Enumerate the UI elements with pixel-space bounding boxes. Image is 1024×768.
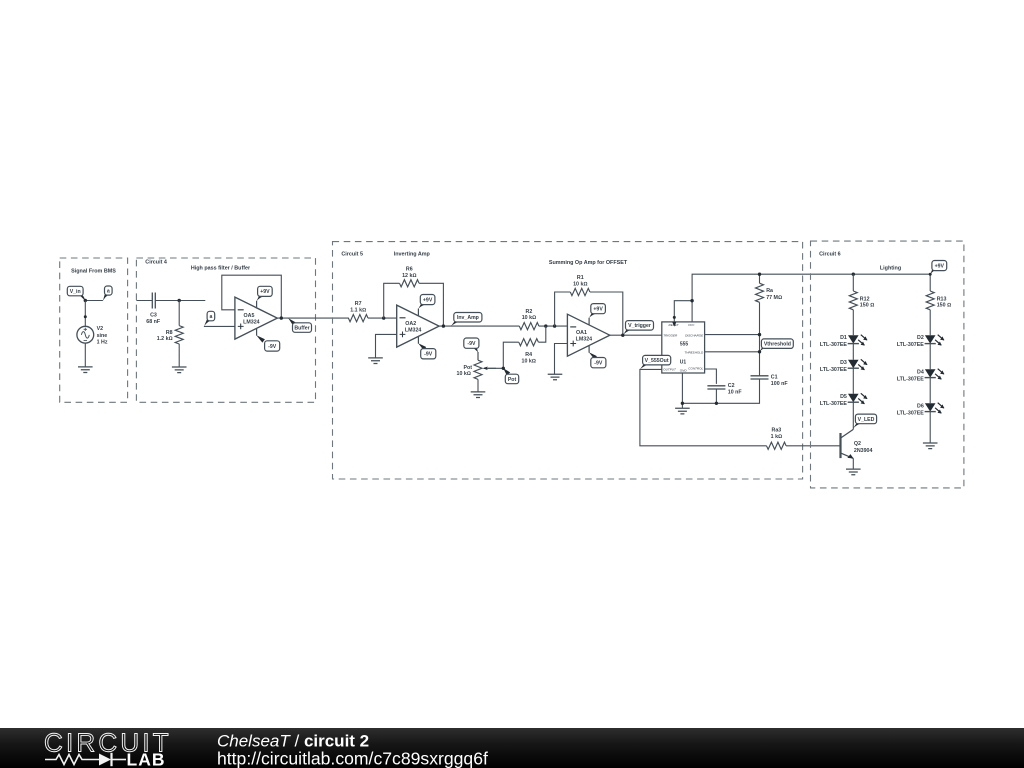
svg-text:10 kΩ: 10 kΩ <box>522 358 536 364</box>
svg-text:+9V: +9V <box>935 263 945 269</box>
junction R4 branch <box>544 324 547 327</box>
svg-text:1 Hz: 1 Hz <box>97 340 108 346</box>
ground under D6 chain <box>923 443 938 449</box>
power flag -9V for OA5 <box>256 329 258 336</box>
svg-text:-9V: -9V <box>424 352 433 358</box>
wire D2 to D4 <box>929 344 931 370</box>
ground under R8 <box>172 367 187 373</box>
junction at R8 top <box>178 299 181 302</box>
voltage source V2 sine 1 Hz <box>77 326 94 343</box>
svg-text:D5: D5 <box>840 394 847 400</box>
junction on OA5 output <box>280 316 283 319</box>
svg-text:Pot: Pot <box>463 365 472 371</box>
svg-text:Q2: Q2 <box>854 441 861 447</box>
pot wiper arrow <box>487 367 497 369</box>
wire D3 to D5 <box>852 368 854 394</box>
flag V_trigger <box>623 329 631 336</box>
ground under V2 <box>78 367 93 373</box>
svg-text:D4: D4 <box>917 369 924 375</box>
flag a (node a, box 1) <box>103 294 108 300</box>
op-amp OA2 LM324 <box>397 305 439 347</box>
svg-text:R1: R1 <box>577 275 584 281</box>
svg-text:LM324: LM324 <box>576 337 593 343</box>
svg-text:Lighting: Lighting <box>880 266 901 272</box>
wire C3 to node <box>155 300 205 302</box>
svg-text:10 kΩ: 10 kΩ <box>573 282 587 288</box>
CircuitLab logo diode <box>99 754 111 766</box>
svg-text:R4: R4 <box>525 352 532 358</box>
svg-text:a: a <box>209 314 212 320</box>
svg-text:V2: V2 <box>97 326 104 332</box>
svg-text:LTL-307EE: LTL-307EE <box>820 367 847 373</box>
LED D4 LTL-307EE <box>925 369 936 377</box>
junction R1 feedback branch <box>553 324 556 327</box>
svg-text:Buffer: Buffer <box>294 325 309 331</box>
svg-text:R12: R12 <box>860 296 870 302</box>
svg-text:D6: D6 <box>917 403 924 409</box>
wire node down to R8 <box>178 301 180 326</box>
resistor R7 <box>348 315 368 322</box>
ground at OA2 + input <box>368 358 383 364</box>
junction at Pot flag node <box>502 367 505 370</box>
wire R12 to D1 <box>852 310 854 335</box>
wire OUTPUT pin to V_555Out and down <box>640 369 767 445</box>
svg-text:LTL-307EE: LTL-307EE <box>897 376 924 382</box>
wire R13 to D2 <box>929 310 931 335</box>
svg-text:Pot: Pot <box>508 377 517 383</box>
wire OA1 output to 555 TRIGGER <box>610 334 662 336</box>
svg-text:C3: C3 <box>150 312 157 318</box>
flag a (node a, box 2) <box>204 320 210 327</box>
wire flag a to op-amp + input <box>204 325 235 327</box>
svg-text:CONTROL: CONTROL <box>688 366 703 370</box>
svg-text:R2: R2 <box>526 309 533 315</box>
wire D4 to D6 <box>929 378 931 404</box>
svg-text:150 Ω: 150 Ω <box>860 303 874 309</box>
wire OA5 output <box>277 317 349 319</box>
svg-text:1.1 kΩ: 1.1 kΩ <box>350 307 366 313</box>
CircuitLab logo resistor zigzag <box>45 755 99 765</box>
svg-text:High pass filter / Buffer: High pass filter / Buffer <box>191 265 251 271</box>
wire CONTROL pin to C2 <box>705 369 717 384</box>
svg-text:Signal From BMS: Signal From BMS <box>71 268 116 274</box>
svg-text:77 MΩ: 77 MΩ <box>766 295 782 301</box>
transistor Q2 2N3904 (NPN) <box>839 433 841 458</box>
junction on OA1 output <box>621 334 624 337</box>
wire R12 branch <box>852 274 854 291</box>
LED D5 LTL-307EE <box>848 394 859 402</box>
power flag -9V for OA2 <box>417 337 419 344</box>
wire into C3 <box>136 300 152 302</box>
resistor R8 <box>175 326 183 344</box>
flag V_LED <box>853 422 861 429</box>
Q2 emitter arrow <box>847 454 853 458</box>
RESET branch wire <box>674 301 692 322</box>
svg-text:OUTPUT: OUTPUT <box>663 368 677 372</box>
power flag +9V for OA1 <box>588 318 590 325</box>
svg-text:R7: R7 <box>355 301 362 307</box>
wire D6 to ground <box>929 412 931 443</box>
flag Pot <box>503 368 510 375</box>
flag Vthreshold <box>759 345 767 352</box>
junction Ra top on +9V rail <box>758 273 761 276</box>
resistor R4 <box>519 339 539 346</box>
svg-text:Inv_Amp: Inv_Amp <box>457 315 479 321</box>
capacitor C1 100 nF <box>751 376 769 379</box>
svg-text:DISCHARGE: DISCHARGE <box>685 333 704 337</box>
junction at OA2 inverting input <box>382 316 385 319</box>
wire D5 to Q2 collector <box>852 402 854 429</box>
svg-text:555: 555 <box>680 341 689 347</box>
svg-text:V_LED: V_LED <box>858 417 875 423</box>
wire D1 to D3 <box>852 344 854 360</box>
capacitor C2 10 nF <box>707 386 725 389</box>
svg-text:http://circuitlab.com/c7c89sxr: http://circuitlab.com/c7c89sxrggq6f <box>217 749 488 768</box>
svg-text:THRESHOLD: THRESHOLD <box>684 350 704 354</box>
power flag +9V for OA2 <box>417 309 419 316</box>
svg-text:10 kΩ: 10 kΩ <box>457 371 471 377</box>
svg-text:VCC: VCC <box>688 323 695 327</box>
ground at OA1 + input <box>548 374 563 380</box>
junction on OA2 output <box>442 324 445 327</box>
junction at RESET pin <box>673 316 676 319</box>
wire junction down to V2 source <box>84 301 86 327</box>
svg-text:Summing Op Amp for OFFSET: Summing Op Amp for OFFSET <box>549 260 628 266</box>
dashed box: Signal From BMS block <box>60 258 128 402</box>
wire V2 to ground <box>84 343 86 367</box>
wire R2 to OA1 - input <box>539 325 568 327</box>
wire Ra3 to Q2 base <box>786 445 840 447</box>
svg-text:C1: C1 <box>771 374 778 380</box>
resistor R13 150 <box>926 291 934 310</box>
svg-text:LTL-307EE: LTL-307EE <box>897 342 924 348</box>
resistor R12 150 <box>849 291 857 310</box>
svg-text:LM324: LM324 <box>243 320 260 326</box>
svg-text:10 nF: 10 nF <box>728 389 743 395</box>
LED D3 LTL-307EE <box>848 360 859 368</box>
wire Q2 emitter to ground <box>852 458 854 469</box>
wire R8 to ground <box>178 344 180 367</box>
wire C2 to bottom rail <box>715 389 717 403</box>
flag V_in <box>79 294 86 301</box>
svg-text:V_in: V_in <box>70 289 81 295</box>
flag V_555Out <box>640 363 649 369</box>
dashed box: Circuit 4 <box>136 258 315 402</box>
flag Inv_Amp <box>451 320 460 326</box>
junction at THRESHOLD node <box>758 350 761 353</box>
svg-text:-9V: -9V <box>467 341 476 347</box>
wire Ra to DISCHARGE node <box>759 302 761 375</box>
ground under 555 <box>675 408 690 414</box>
svg-text:100 nF: 100 nF <box>771 381 789 387</box>
junction C2 bottom <box>715 402 718 405</box>
svg-text:68 nF: 68 nF <box>146 319 161 325</box>
junction on VCC wire <box>690 299 693 302</box>
flag +9V supply (Lighting) <box>930 269 937 275</box>
wire C1 to bottom rail <box>682 379 759 403</box>
ground under pot <box>471 392 486 398</box>
svg-text:GND: GND <box>680 369 688 373</box>
feedback wire R6 to OA2 output <box>419 283 443 326</box>
svg-text:C2: C2 <box>728 383 735 389</box>
svg-text:Vthreshold: Vthreshold <box>764 342 791 348</box>
svg-text:+9V: +9V <box>593 307 603 313</box>
wire OA2 + input to ground <box>376 334 397 358</box>
feedback wire OA5 output to - input <box>222 275 281 318</box>
svg-text:Ra: Ra <box>766 288 773 294</box>
wire from flag a to junction <box>85 300 103 302</box>
junction dot on wire <box>84 315 87 318</box>
junction at DISCHARGE node <box>758 333 761 336</box>
IC U1 555 timer body <box>662 322 705 373</box>
resistor Ra 77 M <box>759 274 761 283</box>
potentiometer Pot 10 k <box>474 360 482 379</box>
ground under Q2 <box>846 469 861 475</box>
svg-text:R8: R8 <box>166 330 173 336</box>
wire R7 to OA2 - input <box>368 317 397 319</box>
svg-text:Circuit 6: Circuit 6 <box>819 252 841 258</box>
svg-text:R6: R6 <box>406 266 413 272</box>
feedback wire R1 to OA1 output <box>590 292 623 335</box>
svg-text:2N3904: 2N3904 <box>854 448 873 454</box>
feedback wire up through R1 <box>555 292 571 326</box>
op-amp OA1 LM324 <box>567 314 609 356</box>
svg-text:+9V: +9V <box>423 297 433 303</box>
svg-text:V_trigger: V_trigger <box>628 323 651 329</box>
svg-text:a: a <box>107 288 110 294</box>
svg-text:V_555Out: V_555Out <box>645 358 669 364</box>
power flag -9V for pot <box>477 352 479 360</box>
svg-text:-9V: -9V <box>594 361 603 367</box>
wire R13 branch from +9V corner <box>929 274 931 291</box>
svg-text:Ra3: Ra3 <box>772 428 782 434</box>
power flag +9V for OA5 <box>256 301 258 308</box>
wire down to R4 <box>538 326 545 342</box>
wire OA1 + input to ground <box>555 344 568 375</box>
svg-text:Circuit 5: Circuit 5 <box>341 251 363 257</box>
resistor R1 (feedback) <box>570 288 590 295</box>
op-amp OA5 LM324 <box>235 297 277 339</box>
capacitor C3 <box>152 293 155 309</box>
RESET arrowhead <box>672 322 676 327</box>
feedback wire up through R6 <box>384 283 400 318</box>
svg-text:D1: D1 <box>840 335 847 341</box>
svg-text:150 Ω: 150 Ω <box>937 303 951 309</box>
svg-text:LAB: LAB <box>127 750 166 768</box>
svg-text:+9V: +9V <box>260 289 270 295</box>
svg-text:U1: U1 <box>680 360 687 366</box>
flag Buffer on OA5 output <box>288 318 295 325</box>
svg-text:Circuit 4: Circuit 4 <box>145 259 167 265</box>
svg-text:12 kΩ: 12 kΩ <box>402 273 416 279</box>
svg-text:10 kΩ: 10 kΩ <box>522 315 536 321</box>
svg-text:TRIGGER: TRIGGER <box>663 333 678 337</box>
wire GND pin down <box>681 373 683 408</box>
wire R4 to pot wiper node <box>484 342 519 368</box>
wire pot to ground <box>477 379 479 392</box>
wire THRESHOLD pin <box>705 351 760 353</box>
wire DISCHARGE pin <box>705 334 760 336</box>
svg-text:LM324: LM324 <box>405 328 422 334</box>
LED D1 LTL-307EE <box>848 335 859 343</box>
resistor Ra3 1 k <box>767 442 787 449</box>
node junction under V_in <box>84 299 87 302</box>
svg-text:LTL-307EE: LTL-307EE <box>820 401 847 407</box>
svg-text:-9V: -9V <box>268 344 277 350</box>
svg-text:D2: D2 <box>917 335 924 341</box>
svg-text:sine: sine <box>97 333 108 339</box>
svg-text:D3: D3 <box>840 360 847 366</box>
svg-text:LTL-307EE: LTL-307EE <box>820 342 847 348</box>
LED D6 LTL-307EE <box>925 403 936 411</box>
svg-text:OA2: OA2 <box>405 321 416 327</box>
dashed box: Circuit 6 <box>811 241 964 488</box>
svg-text:OA1: OA1 <box>576 330 587 336</box>
svg-text:Inverting Amp: Inverting Amp <box>394 252 431 258</box>
svg-text:1.2 kΩ: 1.2 kΩ <box>157 336 173 342</box>
wire OA2 output to R2 <box>439 325 519 327</box>
+9V supply rail wire to VCC <box>692 274 930 322</box>
svg-text:1 kΩ: 1 kΩ <box>771 434 782 440</box>
LED D2 LTL-307EE <box>925 335 936 343</box>
resistor R6 (feedback) <box>400 280 420 287</box>
dashed box: Circuit 5 <box>333 242 803 479</box>
svg-text:R13: R13 <box>937 296 947 302</box>
resistor R2 <box>519 323 539 330</box>
svg-text:LTL-307EE: LTL-307EE <box>897 410 924 416</box>
power flag -9V for OA1 <box>588 346 590 353</box>
junction GND node <box>681 402 684 405</box>
junction R12 top on rail <box>852 273 855 276</box>
svg-text:OA5: OA5 <box>244 313 255 319</box>
